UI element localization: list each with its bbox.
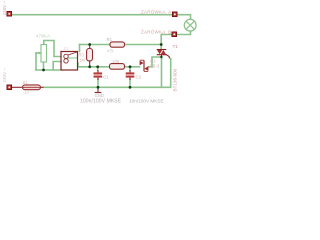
svg-text:B1: B1 [23,80,29,85]
svg-text:R1: R1 [107,37,113,42]
svg-text:100n/100V MKSE: 100n/100V MKSE [80,98,122,104]
svg-text:10k: 10k [112,59,120,64]
svg-text:S1: S1 [64,46,70,51]
svg-text:230V ~: 230V ~ [2,0,7,15]
svg-text:ŻARÓWKA_A: ŻARÓWKA_A [141,8,172,14]
svg-text:C1: C1 [103,75,109,80]
svg-text:DB-3: DB-3 [150,63,160,68]
svg-text:T1: T1 [173,44,179,50]
svg-text:230V ~: 230V ~ [2,67,7,82]
svg-text:1A: 1A [24,90,29,95]
svg-text:1M: 1M [79,58,85,63]
svg-text:C2: C2 [136,75,142,80]
svg-text:ŻARÓWKA_B: ŻARÓWKA_B [141,28,172,34]
svg-text:47k: 47k [107,48,115,53]
svg-text:BT136-600: BT136-600 [172,68,177,91]
svg-text:470k-A: 470k-A [36,34,50,39]
svg-text:10n/100V MKSE: 10n/100V MKSE [129,98,164,103]
svg-text:GND: GND [95,93,104,98]
